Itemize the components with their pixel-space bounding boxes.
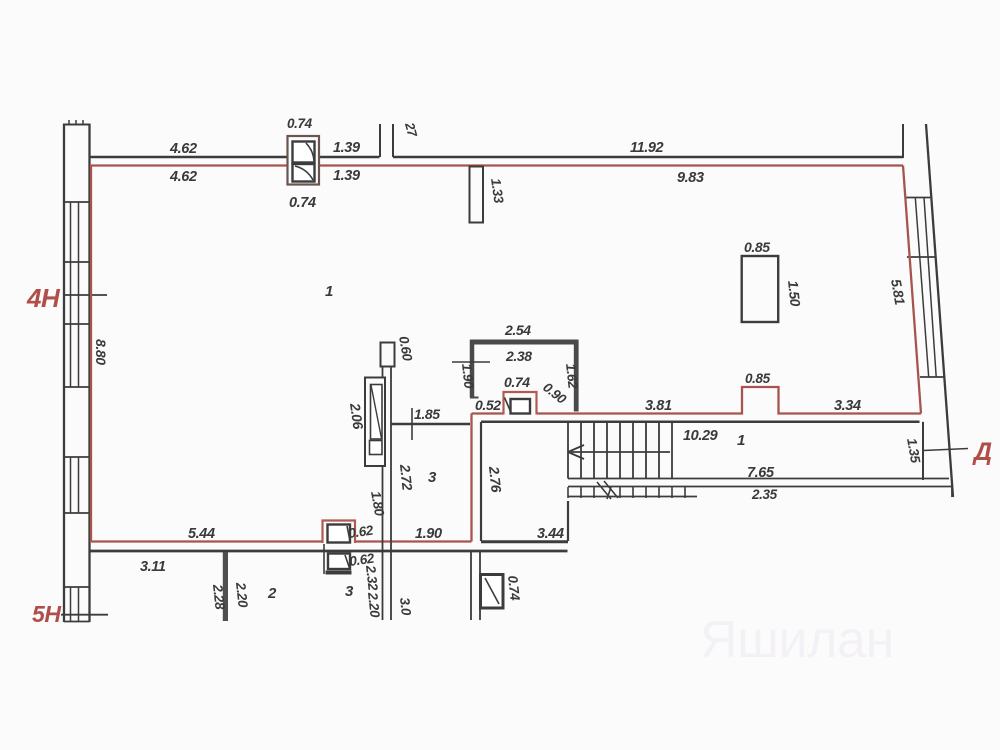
level mark 4H leader line (63, 294, 107, 296)
left exterior wall outer line (63, 124, 65, 622)
svg-text:2.38: 2.38 (505, 348, 532, 364)
svg-text:0.74: 0.74 (504, 374, 530, 390)
right exterior wall outer slanted line (926, 124, 953, 497)
svg-text:4Н: 4Н (26, 283, 61, 313)
right wall window tick bottom (920, 376, 945, 378)
svg-text:1.35: 1.35 (904, 437, 923, 465)
bottom door upper leaf swing (347, 526, 350, 541)
svg-text:1.62: 1.62 (563, 363, 581, 390)
svg-text:11.92: 11.92 (630, 140, 664, 156)
red boundary bottom line right of door (356, 540, 472, 542)
right wall window tick top (906, 197, 932, 199)
stair flight bottom line (568, 478, 949, 480)
wall stub 0.60 (381, 343, 395, 367)
landing room left wall (480, 422, 482, 541)
lower stair flight ticks (568, 487, 685, 498)
left wall window segment separators (64, 202, 90, 622)
svg-text:4.62: 4.62 (169, 141, 197, 157)
niche door leaf box (511, 399, 531, 414)
red boundary top line right of door (320, 164, 903, 166)
niche left thick wall (470, 340, 475, 398)
room 3 top wall (392, 423, 471, 426)
red boundary bottom line left of door (91, 540, 322, 542)
svg-text:0.74: 0.74 (505, 575, 523, 602)
svg-text:5Н: 5Н (32, 601, 61, 627)
svg-text:2.06: 2.06 (347, 401, 367, 430)
svg-text:0.85: 0.85 (744, 239, 770, 255)
top wall branch vertical b (392, 124, 394, 157)
svg-text:0.74: 0.74 (289, 195, 316, 211)
room 3 left wall line b (390, 367, 392, 621)
svg-text:2.72: 2.72 (397, 463, 416, 492)
closet small box (370, 441, 383, 455)
pillar 0.85 x 1.50 (742, 256, 779, 322)
bottom right door leaf (485, 578, 499, 604)
top-right corner inner vertical (902, 124, 904, 158)
niche left wall foot tick (470, 397, 479, 399)
right wall window glazing line 1 (915, 198, 928, 378)
bottom door sill bar (326, 571, 352, 575)
niche door red frame (504, 392, 537, 415)
top door lower leaf box (293, 164, 315, 182)
lower stair flight partial line (568, 496, 697, 498)
room 2 divider thick wall (223, 552, 228, 621)
svg-text:2.35: 2.35 (751, 487, 778, 502)
niche door leaf swing (505, 398, 512, 413)
svg-text:3.44: 3.44 (537, 526, 564, 542)
bottom door red frame (323, 521, 356, 544)
right wall window tick mid (907, 256, 936, 258)
svg-text:1.39: 1.39 (333, 140, 360, 156)
closet inner diagonal (371, 385, 382, 439)
svg-text:2.54: 2.54 (504, 322, 531, 338)
stair direction arrow shaft (571, 451, 670, 453)
top door upper leaf swing (306, 143, 314, 161)
svg-text:3.11: 3.11 (140, 559, 166, 575)
bottom door upper leaf box (328, 525, 351, 543)
svg-text:2.20: 2.20 (365, 591, 383, 619)
svg-text:1.85: 1.85 (414, 406, 440, 422)
bottom door left jamb (323, 544, 325, 574)
svg-text:3: 3 (428, 469, 437, 486)
svg-text:0.74: 0.74 (287, 116, 313, 131)
stair hall right end vertical (951, 487, 953, 498)
svg-text:1.90: 1.90 (415, 526, 442, 542)
bottom right door box (481, 575, 504, 609)
left wall top cap ticks (69, 120, 83, 124)
door mark Д leader (924, 449, 969, 451)
landing room bottom wall (481, 540, 568, 543)
svg-text:4.62: 4.62 (169, 169, 197, 185)
svg-text:3: 3 (345, 583, 354, 600)
red boundary line niche-door to corner (472, 412, 504, 414)
svg-text:3.0: 3.0 (397, 597, 414, 617)
wall line b at x480 (479, 552, 481, 620)
svg-text:2.20: 2.20 (233, 581, 251, 609)
left wall window glazing lines bottom band (71, 587, 79, 622)
left wall window glazing lines upper band (71, 202, 79, 387)
landing room right wall lower part (567, 501, 569, 541)
stair treads (568, 422, 672, 479)
stair hall top wall (481, 421, 920, 424)
svg-text:1: 1 (325, 283, 333, 300)
svg-text:1: 1 (737, 432, 745, 449)
svg-text:2.32: 2.32 (363, 564, 381, 592)
svg-text:1.50: 1.50 (785, 280, 804, 308)
room 3 top wall dimension tick (411, 408, 413, 440)
svg-text:2.28: 2.28 (210, 583, 228, 611)
svg-text:5.81: 5.81 (888, 278, 908, 307)
svg-text:1.90: 1.90 (459, 363, 477, 390)
bottom door lower leaf swing (345, 555, 350, 568)
top wall black line mid part (320, 156, 380, 159)
stair break mark (597, 481, 618, 499)
niche dimension tick (452, 361, 490, 363)
left exterior wall inner line (88, 124, 90, 622)
red boundary right slanted line (903, 166, 921, 414)
svg-text:Яшилан: Яшилан (700, 611, 894, 669)
niche top thick wall (470, 340, 579, 345)
red boundary vertical at room 3 (470, 414, 472, 542)
svg-text:3.81: 3.81 (645, 398, 672, 414)
left wall window glazing lines middle band (71, 457, 79, 513)
stair arrow head (568, 445, 584, 459)
red boundary left line (90, 166, 92, 542)
bottom wall x382 lower part already drawn; wall between room2 and hall (470, 552, 472, 620)
svg-text:9.83: 9.83 (677, 170, 704, 186)
closet outer box (365, 378, 385, 467)
svg-text:7.65: 7.65 (747, 465, 775, 481)
top door upper leaf box (293, 142, 315, 163)
top door lower leaf swing (295, 166, 313, 180)
bottom interior wall black line (90, 550, 568, 553)
top wall black line left part (90, 156, 288, 159)
svg-text:0.62: 0.62 (347, 523, 374, 541)
top wall branch vertical a (379, 124, 381, 157)
top wall black line right part (393, 156, 903, 159)
red boundary top line left of door (91, 164, 287, 166)
right wall window glazing line 2 (924, 198, 936, 378)
svg-text:27: 27 (402, 120, 421, 139)
left wall top cap (63, 124, 91, 126)
svg-text:8.80: 8.80 (93, 339, 109, 365)
room 3 left wall line a (382, 367, 384, 621)
svg-text:2: 2 (267, 585, 277, 602)
svg-text:0.85: 0.85 (745, 371, 771, 386)
svg-text:Д: Д (972, 438, 992, 466)
closet inner tall box (371, 385, 383, 440)
svg-text:1.80: 1.80 (368, 490, 387, 518)
level mark 5H leader line (61, 614, 108, 616)
stair hall bottom wall line (568, 486, 952, 488)
svg-text:3.34: 3.34 (834, 398, 861, 414)
niche right thick wall (574, 340, 579, 412)
svg-text:0.52: 0.52 (475, 397, 501, 413)
svg-text:10.29: 10.29 (683, 428, 718, 444)
svg-text:0.60: 0.60 (396, 335, 415, 363)
red boundary lower right line with notch (537, 387, 921, 414)
top door outer frame (288, 136, 320, 185)
svg-text:1.39: 1.39 (333, 168, 360, 184)
bottom door lower leaf box (328, 554, 350, 570)
wall stub 1.33 below top wall (470, 167, 484, 223)
right wall lower inner vertical (922, 422, 924, 480)
svg-text:2.76: 2.76 (486, 465, 505, 494)
svg-text:5.44: 5.44 (188, 526, 215, 542)
svg-text:1.33: 1.33 (488, 177, 506, 204)
